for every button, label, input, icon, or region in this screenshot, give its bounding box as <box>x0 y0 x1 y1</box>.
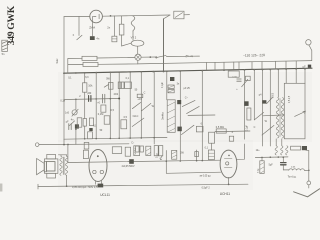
resistor <box>291 146 301 150</box>
wire top right <box>102 15 170 16</box>
resistor <box>77 118 82 127</box>
hatched cap <box>146 146 151 155</box>
wire oval to lamp <box>137 46 139 54</box>
wire <box>97 57 135 60</box>
wire diagonal to dropper <box>164 15 171 19</box>
wire <box>118 72 120 138</box>
junction <box>118 98 120 100</box>
electrolytic (dark) <box>75 124 79 128</box>
svg-text:0,5-2,5: 0,5-2,5 <box>289 95 291 103</box>
switch diagonal <box>242 79 248 86</box>
svg-text:Ton-Ltg.: Ton-Ltg. <box>288 175 297 178</box>
trimmer diagonal <box>69 121 74 126</box>
cap below (dark) <box>98 184 104 188</box>
fuse / wavy element <box>131 16 135 31</box>
wire <box>166 71 168 99</box>
resistor pair <box>154 146 158 156</box>
svg-text:UCL11: UCL11 <box>100 193 110 197</box>
switch contact <box>156 55 166 57</box>
speaker top cap <box>47 154 56 159</box>
feedback arrow <box>295 111 306 116</box>
mains switch (top right) <box>174 11 184 19</box>
IF coil left <box>276 98 279 138</box>
svg-text:0,1µ: 0,1µ <box>257 168 259 173</box>
wire <box>244 70 246 139</box>
svg-text:µF 25: µF 25 <box>184 87 191 90</box>
capacitor block <box>112 36 117 42</box>
resistor row line upper <box>68 57 82 59</box>
bandfilter <box>125 82 132 89</box>
wire <box>179 138 181 161</box>
wire <box>262 70 264 146</box>
resistor w bars <box>208 150 214 160</box>
rail junction dots <box>84 98 279 162</box>
coupling cap <box>112 147 121 154</box>
capacitor 4n (dark) <box>90 36 95 40</box>
svg-text:Netz: Netz <box>56 58 59 64</box>
wire <box>192 55 199 57</box>
wire drop to fuse <box>132 15 134 17</box>
coupled coils <box>118 82 121 89</box>
svg-text:5µF: 5µF <box>269 164 274 167</box>
bus junction dots <box>63 68 306 74</box>
resistor <box>88 132 93 139</box>
oscillator box <box>284 83 305 139</box>
resistor <box>89 118 93 126</box>
svg-text:0,5µ: 0,5µ <box>161 155 163 160</box>
main HT bus <box>64 68 312 73</box>
resistor (horizontal) <box>82 56 97 60</box>
junction <box>282 156 284 158</box>
wire <box>165 151 167 174</box>
phono terminal <box>35 143 39 147</box>
top lead dot <box>228 155 230 157</box>
wire <box>215 130 250 133</box>
comp column <box>196 150 198 160</box>
antenna post (top right) <box>306 40 311 45</box>
wire <box>84 73 86 83</box>
selector taps <box>207 61 297 69</box>
coil feed stubs <box>276 139 282 146</box>
detector diode <box>75 99 77 109</box>
wire <box>140 72 142 138</box>
svg-text:2x0,05 500V: 2x0,05 500V <box>122 166 135 168</box>
resistor <box>104 116 110 124</box>
AV rail lower <box>166 172 220 173</box>
wire <box>201 71 203 161</box>
switch diagonals lower <box>255 112 274 135</box>
resistor <box>209 132 215 143</box>
wire <box>308 185 310 188</box>
mains selector line (long) <box>138 61 312 64</box>
svg-text:Od-C: Od-C <box>133 115 139 118</box>
blob <box>302 146 307 150</box>
resistor (vertical) <box>119 24 124 35</box>
svg-text:10k: 10k <box>88 84 93 88</box>
wire <box>129 72 131 138</box>
mid rail <box>64 137 167 139</box>
decoupling cap (dark) <box>170 77 174 81</box>
internal electrodes <box>93 170 96 173</box>
blob junction <box>177 100 181 104</box>
junction <box>110 15 112 17</box>
switch arrow <box>132 118 144 126</box>
trimmer rects <box>196 126 203 132</box>
wire drop to grid cap <box>78 17 80 36</box>
dial lamp (circle with X) <box>135 54 141 60</box>
wire <box>166 55 186 57</box>
fuse arrows <box>186 56 192 57</box>
tuning capacitor (hatched) <box>167 100 175 133</box>
capacitor <box>69 124 71 130</box>
earth connector circle <box>307 181 311 185</box>
wire drop <box>114 16 116 36</box>
wire <box>84 126 86 139</box>
transformer core <box>62 157 65 175</box>
hatched resistor <box>260 161 264 174</box>
svg-text:ZAA: ZAA <box>89 26 95 30</box>
svg-text:UCH11: UCH11 <box>220 192 230 196</box>
capacitor block (dark) <box>308 65 311 68</box>
cap block <box>245 76 250 80</box>
cathode lead <box>228 177 230 184</box>
rail terminal <box>37 184 39 189</box>
capacitor <box>102 94 104 103</box>
grid wire <box>64 99 119 100</box>
phono line <box>39 143 129 146</box>
blob <box>244 101 248 106</box>
svg-text:µ50: µ50 <box>87 92 92 95</box>
svg-text:0,05 2x0,1µF 700V 0,5: 0,05 2x0,1µF 700V 0,5 <box>72 186 98 189</box>
wire <box>153 72 155 144</box>
svg-text:0,1n: 0,1n <box>60 99 65 102</box>
svg-text:0,5 MΩ: 0,5 MΩ <box>216 126 224 129</box>
coupling caps (dark bars) <box>89 96 91 102</box>
wire <box>179 71 181 138</box>
speaker cone <box>37 159 45 175</box>
speaker bottom cap <box>47 173 56 178</box>
heater dropper line (vertical) <box>163 19 165 71</box>
resistor <box>247 108 251 120</box>
svg-text:an 0,05 µµ: an 0,05 µµ <box>200 176 212 178</box>
heater rail <box>255 156 288 159</box>
junction <box>228 184 230 186</box>
resistor <box>121 120 127 129</box>
wire <box>109 72 111 138</box>
blob <box>89 128 92 131</box>
svg-text:0,1µF: 0,1µF <box>162 81 164 88</box>
junction <box>149 56 151 58</box>
switch arrow <box>104 85 108 88</box>
band switch arrows <box>132 102 151 111</box>
internal electrode <box>226 162 229 165</box>
wire to ground rail <box>66 176 68 187</box>
IF can resistor <box>109 82 113 89</box>
bottom rail <box>38 184 248 186</box>
cap <box>229 136 233 141</box>
switch diagonal <box>267 97 273 103</box>
wire <box>188 114 215 116</box>
svg-text:0,1M: 0,1M <box>98 113 104 116</box>
padder <box>137 94 143 97</box>
junction blob <box>129 159 134 164</box>
hatched block <box>172 150 177 159</box>
wire <box>211 143 213 150</box>
tube V1 (output triode) <box>90 10 103 23</box>
AF rail <box>68 160 220 162</box>
switch arrows <box>182 100 199 113</box>
wire <box>84 92 86 118</box>
wire to lamp bottom <box>98 60 138 64</box>
output transformer secondary <box>65 156 67 175</box>
vibration capacitor <box>134 146 140 156</box>
antenna trimmer at left edge <box>2 40 8 51</box>
anode dot <box>97 155 99 157</box>
osc coil pair <box>275 146 277 155</box>
audio out wire <box>283 169 289 171</box>
wire <box>132 31 134 40</box>
selector block <box>228 71 239 77</box>
comp <box>136 146 139 152</box>
switch arrows <box>181 125 194 134</box>
junction <box>308 169 310 171</box>
transformer top stubs <box>58 155 66 156</box>
speaker frame <box>44 159 58 173</box>
voice coil <box>46 162 55 171</box>
svg-text:VY 2: VY 2 <box>131 36 137 40</box>
resistor <box>125 147 130 156</box>
svg-text:349 GWK: 349 GWK <box>6 5 17 45</box>
rectifier oval VY <box>131 40 144 46</box>
trimmer C <box>237 79 241 81</box>
smoothing cap (dark bars) <box>281 163 286 165</box>
wire drop <box>92 16 94 36</box>
svg-text:1n5: 1n5 <box>65 112 70 115</box>
output transformer primary <box>60 156 62 175</box>
padder caps hatched <box>168 85 174 88</box>
resistor 0,1M <box>101 105 106 112</box>
cathode leads <box>96 181 102 185</box>
svg-text:0,1µF: 0,1µF <box>247 124 249 131</box>
resistor 0,5M <box>216 129 226 133</box>
svg-text:2O2: 2O2 <box>114 93 119 96</box>
speaker feed wire <box>67 145 69 163</box>
wire <box>277 69 279 97</box>
svg-text:+C±: +C± <box>137 98 142 101</box>
left rail <box>63 17 65 145</box>
junction <box>75 98 77 100</box>
wire <box>286 69 305 83</box>
cathode resistor <box>83 150 88 158</box>
wire <box>95 73 97 139</box>
junction <box>66 185 68 187</box>
resistor R 10k <box>83 83 87 92</box>
wire stub <box>184 14 190 16</box>
wire <box>253 70 255 120</box>
wire <box>304 169 308 171</box>
IF core <box>279 99 281 137</box>
edge smudge <box>0 184 2 192</box>
wire lamp right <box>141 56 156 58</box>
blob <box>177 127 181 132</box>
rail stub <box>67 59 69 74</box>
resistor row line lower <box>68 64 83 66</box>
wire top left <box>64 15 90 17</box>
wire <box>269 70 271 147</box>
resistor <box>83 119 86 127</box>
earth lead <box>308 151 310 181</box>
svg-text:C 50: C 50 <box>232 76 237 78</box>
tube V1 electrodes <box>93 14 99 19</box>
junction <box>75 128 77 130</box>
audio choke <box>289 169 305 171</box>
IF coil right <box>281 98 284 138</box>
wire <box>75 129 77 145</box>
tube UCH11 envelope <box>220 150 237 178</box>
resistor (horizontal) <box>83 62 98 66</box>
screen resistor <box>84 142 89 149</box>
junction <box>63 144 65 146</box>
wire <box>261 157 263 160</box>
svg-text:C: C <box>254 126 256 129</box>
tube UCL11 envelope <box>89 150 107 182</box>
svg-text:Drehko: Drehko <box>161 112 164 120</box>
blob <box>262 100 266 103</box>
anode wire <box>237 144 245 159</box>
speaker magnet bar <box>44 161 46 171</box>
svg-text:C: C <box>144 92 146 95</box>
grid capacitor (diagonal mark) <box>77 35 82 40</box>
svg-text:12+: 12+ <box>256 149 261 152</box>
svg-text:0,5µF 2: 0,5µF 2 <box>202 186 211 189</box>
chassis ground <box>294 189 320 197</box>
wire from blob <box>306 149 309 151</box>
scattered value labels <box>60 76 267 149</box>
svg-text:~110 125~ 220: ~110 125~ 220 <box>243 53 265 57</box>
wire <box>263 114 284 117</box>
wire stub <box>122 16 131 46</box>
